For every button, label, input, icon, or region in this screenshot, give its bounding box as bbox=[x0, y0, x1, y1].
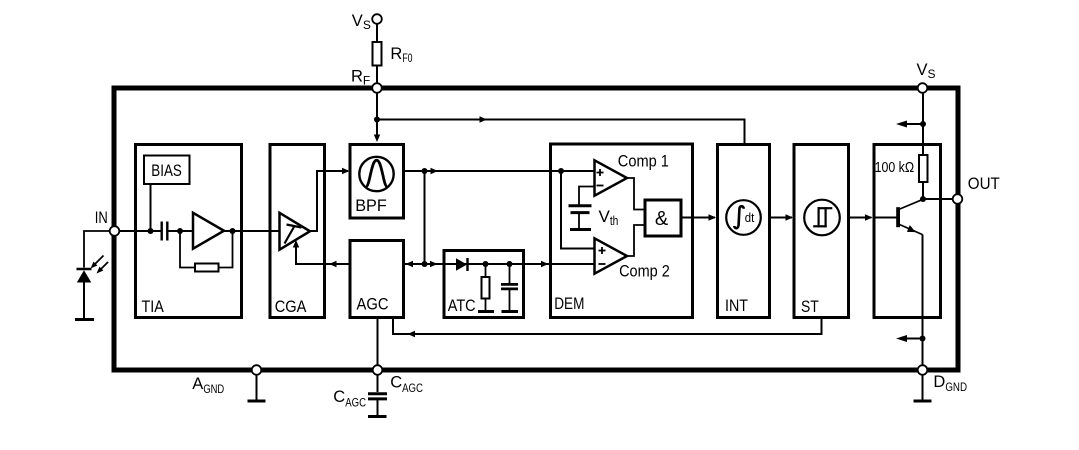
wire TIA amp output to CGA bbox=[224, 230, 280, 232]
wire top feedback RF to INT bbox=[377, 120, 745, 144]
ground AGND bbox=[248, 400, 266, 403]
capacitor coupling C in TIA bbox=[160, 222, 162, 241]
terminal IN bbox=[110, 226, 120, 236]
wire AND output to INT bbox=[681, 217, 715, 219]
CGA variable gain mark bbox=[287, 225, 302, 228]
svg-text:CGA: CGA bbox=[275, 298, 307, 316]
comp1 plus sign bbox=[597, 172, 604, 174]
block DEM bbox=[551, 144, 693, 318]
ground Vth bbox=[570, 228, 591, 231]
ST hysteresis symbol bbox=[817, 207, 819, 227]
svg-text:CAGC: CAGC bbox=[390, 374, 423, 396]
comp2 minus sign bbox=[599, 263, 606, 265]
capacitor ATC bbox=[509, 264, 511, 283]
block CGA bbox=[270, 145, 325, 318]
arrow on top feedback wire bbox=[480, 116, 488, 122]
svg-text:BPF: BPF bbox=[355, 197, 387, 215]
block ST bbox=[794, 145, 849, 318]
photodiode D1 bbox=[77, 268, 92, 271]
ground ATC capacitor bbox=[502, 310, 519, 313]
terminal DGND bbox=[918, 365, 928, 375]
svg-text:dt: dt bbox=[745, 210, 755, 225]
svg-text:RF0: RF0 bbox=[390, 45, 412, 65]
comp1 minus sign bbox=[597, 185, 604, 187]
wire comp2 plus input bbox=[561, 171, 595, 249]
wire BIAS to input line bbox=[150, 185, 152, 231]
wire BPF junction down to AGC line bbox=[424, 171, 426, 264]
arrow left into CGA right edge bbox=[329, 261, 337, 267]
node BIAS junction bbox=[148, 228, 154, 234]
node collector junction bbox=[920, 196, 926, 202]
wire VS right down to 100k resistor bbox=[922, 93, 924, 155]
arrow right toward ATC bbox=[430, 261, 438, 267]
terminal VS right bbox=[918, 83, 928, 93]
light arrow 2 bbox=[99, 262, 108, 271]
svg-text:AGC: AGC bbox=[357, 296, 389, 314]
wire cap to TIA amp bbox=[169, 230, 194, 232]
arrow supply current left bottom bbox=[902, 338, 923, 340]
arrow left on feedback wire bbox=[408, 331, 416, 337]
transistor Q1 base wire bbox=[874, 217, 897, 219]
node ATC junction 1 bbox=[483, 261, 489, 267]
ground CAGC bbox=[368, 415, 387, 418]
node TIA amp output dot bbox=[230, 228, 236, 234]
block output stage bbox=[874, 145, 941, 318]
photodiode wire from IN bbox=[84, 231, 110, 268]
terminal AGND bbox=[252, 365, 262, 375]
gate AND box bbox=[645, 200, 681, 236]
BPF bandpass curve bbox=[366, 160, 388, 187]
svg-text:&: & bbox=[655, 208, 669, 230]
comp2 plus sign bbox=[599, 250, 606, 252]
wire RF0 to RF node and down into BPF bbox=[376, 66, 378, 138]
block AGC bbox=[350, 241, 404, 318]
svg-text:VS: VS bbox=[352, 12, 371, 32]
node ATC junction 2 bbox=[507, 261, 513, 267]
ground DGND bbox=[914, 400, 932, 403]
node BPF output junction bbox=[422, 168, 428, 174]
resistor 100k bbox=[919, 155, 928, 182]
node TIA amp input dot bbox=[177, 228, 183, 234]
wire BPF output to DEM comp1 bbox=[404, 170, 595, 172]
terminal OUT bbox=[953, 194, 963, 204]
IC outer boundary box bbox=[114, 88, 958, 370]
arrow into BPF left bbox=[342, 168, 350, 174]
wire IN to coupling cap bbox=[119, 230, 160, 232]
arrow left into AGC bbox=[406, 261, 414, 267]
node DGND branch dot bbox=[920, 336, 926, 342]
wire comp2 output to AND bbox=[627, 225, 645, 256]
block BPF bbox=[350, 145, 404, 219]
block TIA bbox=[136, 145, 242, 318]
ST icon circle bbox=[804, 200, 840, 236]
INT icon circle bbox=[726, 200, 761, 235]
wire ST to output stage bbox=[849, 217, 872, 219]
block INT bbox=[718, 145, 770, 318]
capacitor Vth bbox=[569, 204, 592, 207]
transistor Q1 base bar bbox=[896, 207, 900, 227]
svg-text:IN: IN bbox=[95, 209, 108, 227]
resistor ATC bbox=[485, 264, 487, 277]
wire INT to ST bbox=[770, 217, 793, 219]
svg-text:INT: INT bbox=[725, 297, 748, 315]
wire resistor to collector node bbox=[922, 182, 924, 199]
arrow into BPF top bbox=[374, 135, 380, 143]
wire AGC control to CGA bbox=[296, 242, 350, 264]
arrow supply current left top bbox=[902, 123, 923, 125]
wire AGC down to CAGC terminal bbox=[377, 318, 379, 393]
ground ATC resistor bbox=[478, 310, 494, 313]
svg-text:ATC: ATC bbox=[448, 297, 476, 315]
diode ATC D2 bbox=[456, 258, 467, 270]
svg-text:VS: VS bbox=[917, 61, 936, 81]
block ATC bbox=[444, 251, 524, 318]
arrow right into DEM bbox=[541, 261, 549, 267]
svg-text:Comp 2: Comp 2 bbox=[619, 263, 670, 281]
svg-text:CAGC: CAGC bbox=[333, 388, 366, 410]
wire VS to RF0 resistor bbox=[376, 24, 378, 43]
resistor TIA feedback bbox=[195, 264, 219, 272]
block BIAS bbox=[144, 156, 190, 185]
capacitor CAGC bbox=[368, 392, 387, 395]
node VS branch dot bbox=[920, 121, 926, 127]
light arrow 1 bbox=[94, 256, 104, 266]
svg-text:ST: ST bbox=[801, 298, 819, 316]
comparator Comp1 bbox=[595, 160, 628, 195]
wire CGA output up to BPF bbox=[310, 171, 348, 231]
svg-text:Vth: Vth bbox=[599, 207, 619, 228]
wire comp1 output to AND bbox=[627, 178, 645, 210]
wire DGND stub bbox=[922, 375, 924, 400]
terminal CAGC bbox=[373, 365, 383, 375]
node RF terminal circle bbox=[372, 83, 382, 93]
svg-text:BIAS: BIAS bbox=[151, 162, 182, 180]
svg-text:DEM: DEM bbox=[554, 295, 584, 313]
INT integral sign bbox=[734, 206, 744, 228]
arrow into output stage bbox=[865, 214, 873, 220]
svg-text:Comp 1: Comp 1 bbox=[618, 152, 669, 170]
comparator Comp2 bbox=[595, 238, 628, 273]
svg-text:100 kΩ: 100 kΩ bbox=[875, 160, 915, 176]
node RF junction dot bbox=[374, 117, 380, 123]
wire collector node to OUT bbox=[923, 198, 953, 200]
wire AGND stub bbox=[256, 375, 258, 400]
BPF bandpass icon circle bbox=[359, 157, 393, 191]
op-amp TIA A1 bbox=[193, 213, 224, 249]
wire AGC ATC DEM line bbox=[404, 263, 595, 265]
terminal VS top bbox=[372, 14, 382, 24]
svg-text:RF: RF bbox=[351, 67, 370, 87]
amplifier CGA triangle bbox=[280, 213, 311, 250]
arrow into INT bbox=[709, 214, 717, 220]
svg-text:AGND: AGND bbox=[192, 375, 224, 396]
wire ST feedback to AGC bbox=[393, 318, 822, 335]
node AGC line junction bbox=[422, 261, 428, 267]
node DEM input junction bbox=[558, 168, 564, 174]
svg-text:OUT: OUT bbox=[968, 175, 1000, 193]
arrow on BPF output wire bbox=[431, 168, 439, 174]
ground photodiode bbox=[75, 318, 94, 321]
wire emitter down to DGND bbox=[922, 235, 924, 369]
arrow up into CGA triangle bbox=[293, 240, 299, 248]
transistor Q1 collector bbox=[900, 199, 923, 209]
svg-text:DGND: DGND bbox=[933, 373, 967, 394]
transistor Q1 emitter bbox=[900, 225, 923, 235]
wire comp1 minus to Vth bbox=[579, 187, 595, 205]
resistor RF0 bbox=[373, 42, 382, 66]
wire TIA feedback loop bbox=[180, 231, 195, 268]
svg-text:TIA: TIA bbox=[142, 298, 164, 316]
arrow into ST bbox=[786, 214, 794, 220]
